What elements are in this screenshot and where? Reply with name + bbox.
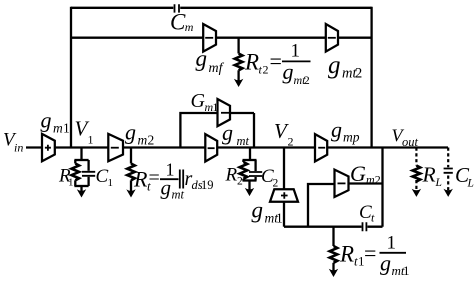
label C2 [261, 166, 279, 190]
capacitor Ct [363, 222, 367, 231]
capacitor Cm [175, 4, 180, 12]
svg-text:m: m [366, 173, 375, 187]
capacitor CL [444, 169, 453, 173]
op-amp gm1 [42, 134, 55, 161]
svg-text:1: 1 [403, 263, 410, 278]
label gmt [222, 120, 250, 148]
wire: gmt1 output down to bottom rail [283, 202, 285, 227]
wire: R2C2 drop from V2 node [249, 148, 251, 161]
svg-text:2: 2 [148, 133, 155, 148]
svg-text:19: 19 [201, 178, 214, 192]
svg-text:2: 2 [375, 173, 381, 187]
svg-text:=: = [270, 49, 282, 74]
label gm1 [41, 108, 70, 136]
ground below Rt1 [329, 269, 338, 277]
svg-text:2: 2 [355, 66, 362, 82]
svg-text:g: g [161, 176, 172, 200]
wire: second rail into gmf [71, 37, 203, 39]
svg-text:g: g [331, 117, 342, 142]
svg-text:g: g [328, 52, 341, 79]
label RL [422, 163, 442, 190]
op-amp gmt1 (pointing up) [270, 189, 298, 201]
label R2 [225, 165, 244, 188]
ground below Rt [126, 189, 135, 197]
svg-text:1: 1 [213, 102, 219, 114]
wire: Vout inner vertical to bottom rail [381, 148, 383, 227]
svg-text:out: out [402, 135, 419, 149]
svg-text:=: = [364, 241, 376, 266]
op-amp gmt2 [326, 24, 338, 52]
svg-text:g: g [41, 108, 52, 133]
svg-text:in: in [14, 141, 23, 155]
wire: V1 node drop to R1C1 [80, 148, 82, 161]
svg-text:2: 2 [288, 135, 294, 149]
op-amp gm2 [108, 134, 123, 161]
wire: gmf output to gmt2 input [216, 37, 326, 39]
label gm2 [125, 120, 154, 148]
capacitor C1 [82, 160, 95, 186]
svg-text:m: m [53, 121, 63, 136]
wire: Rt1 drop from bottom rail [332, 227, 334, 246]
svg-text:C: C [170, 10, 186, 35]
ground below R1C1 [77, 189, 86, 197]
label Vout [392, 125, 419, 149]
wire: Rt drop from gm2 output [130, 148, 132, 164]
capacitor C2 [249, 160, 262, 181]
label V2 [274, 119, 294, 149]
ground below R2C2 [245, 188, 254, 196]
svg-text:1: 1 [108, 177, 114, 189]
svg-text:2: 2 [304, 73, 310, 87]
svg-text:g: g [196, 46, 208, 71]
svg-text:R: R [133, 167, 148, 192]
resistor Rt1 [330, 246, 338, 272]
svg-text:G: G [350, 161, 366, 186]
resistor Rt2 [235, 54, 243, 83]
ground below RL [412, 189, 421, 197]
wire: main signal line Vin to output [26, 146, 448, 148]
op-amp Gm2 [335, 170, 349, 197]
label Rt2 = 1/gmt2 [244, 41, 311, 88]
op-amp gmf [203, 24, 216, 52]
wire: V2 drop to gmt1 [283, 148, 285, 190]
svg-text:1: 1 [63, 121, 70, 136]
wire: Gm2 feedback loop [308, 184, 383, 227]
label Ct [359, 202, 375, 225]
svg-text:=: = [149, 167, 160, 189]
svg-text:G: G [191, 90, 206, 112]
svg-text:2: 2 [273, 178, 279, 190]
svg-text:m: m [185, 20, 194, 34]
svg-text:mt: mt [172, 188, 185, 202]
label Cm [170, 10, 194, 35]
label Gm1 [191, 90, 219, 114]
svg-text:R: R [339, 242, 354, 267]
svg-text:g: g [125, 120, 136, 145]
svg-text:mt: mt [237, 134, 250, 148]
resistor R2 [240, 160, 248, 181]
wire: R1C1 top bar [74, 159, 88, 161]
wire: dashed CL drop [447, 148, 449, 193]
label gmt1 [252, 198, 283, 226]
svg-text:2: 2 [263, 63, 269, 77]
label Rt1 = 1/gmt1 [339, 233, 410, 279]
label Gm2 [350, 161, 381, 187]
label Vin [3, 130, 23, 155]
wire: left vertical rail from V1 node [70, 7, 72, 148]
svg-text:m: m [138, 133, 148, 148]
label gmt2 [328, 52, 362, 82]
wire: right vertical rail down to Vout [370, 7, 372, 148]
svg-text:g: g [222, 120, 233, 145]
wire: Rt2 drop from gmf output rail [237, 38, 239, 54]
op-amp gmp [315, 134, 327, 161]
wire: Gm1 feedback loop [180, 113, 254, 148]
svg-text:1: 1 [88, 133, 94, 147]
svg-text:R: R [225, 165, 238, 186]
op-amp gmt [205, 134, 217, 161]
svg-text:g: g [380, 251, 391, 276]
label C1 [96, 166, 114, 189]
label Rt = 1/gmt || rds19 [133, 160, 214, 202]
svg-text:L: L [467, 178, 474, 190]
label CL [455, 163, 474, 190]
svg-text:mf: mf [209, 61, 225, 76]
wire: top Cm rail [71, 7, 372, 9]
svg-text:1: 1 [68, 177, 74, 189]
svg-text:1: 1 [276, 211, 283, 226]
svg-text:R: R [422, 163, 436, 187]
resistor R1 [72, 160, 80, 186]
svg-text:mp: mp [343, 130, 360, 145]
wire: R1C1 bottom bar [74, 186, 88, 193]
wire: R2C2 top bar [243, 159, 257, 161]
svg-text:t: t [371, 211, 375, 225]
svg-text:L: L [435, 177, 442, 189]
ground below CL [444, 189, 453, 197]
wire: R2C2 bottom bar [243, 181, 257, 192]
svg-text:2: 2 [237, 176, 243, 188]
svg-text:g: g [252, 198, 264, 223]
wire: bottom rail with Ct gap [284, 226, 383, 228]
svg-text:g: g [283, 59, 294, 84]
op-amp Gm1 [218, 99, 231, 126]
label V1 [75, 117, 94, 147]
wire: dashed RL drop [415, 148, 417, 193]
resistor RL [413, 166, 421, 182]
wire: gmt2 output to right rail [338, 37, 372, 39]
label gmf [196, 46, 225, 76]
label R1 [58, 166, 74, 189]
label gmp [331, 117, 360, 145]
svg-text:R: R [244, 50, 259, 75]
resistor Rt [127, 164, 135, 193]
ground below Rt2 [234, 79, 243, 87]
